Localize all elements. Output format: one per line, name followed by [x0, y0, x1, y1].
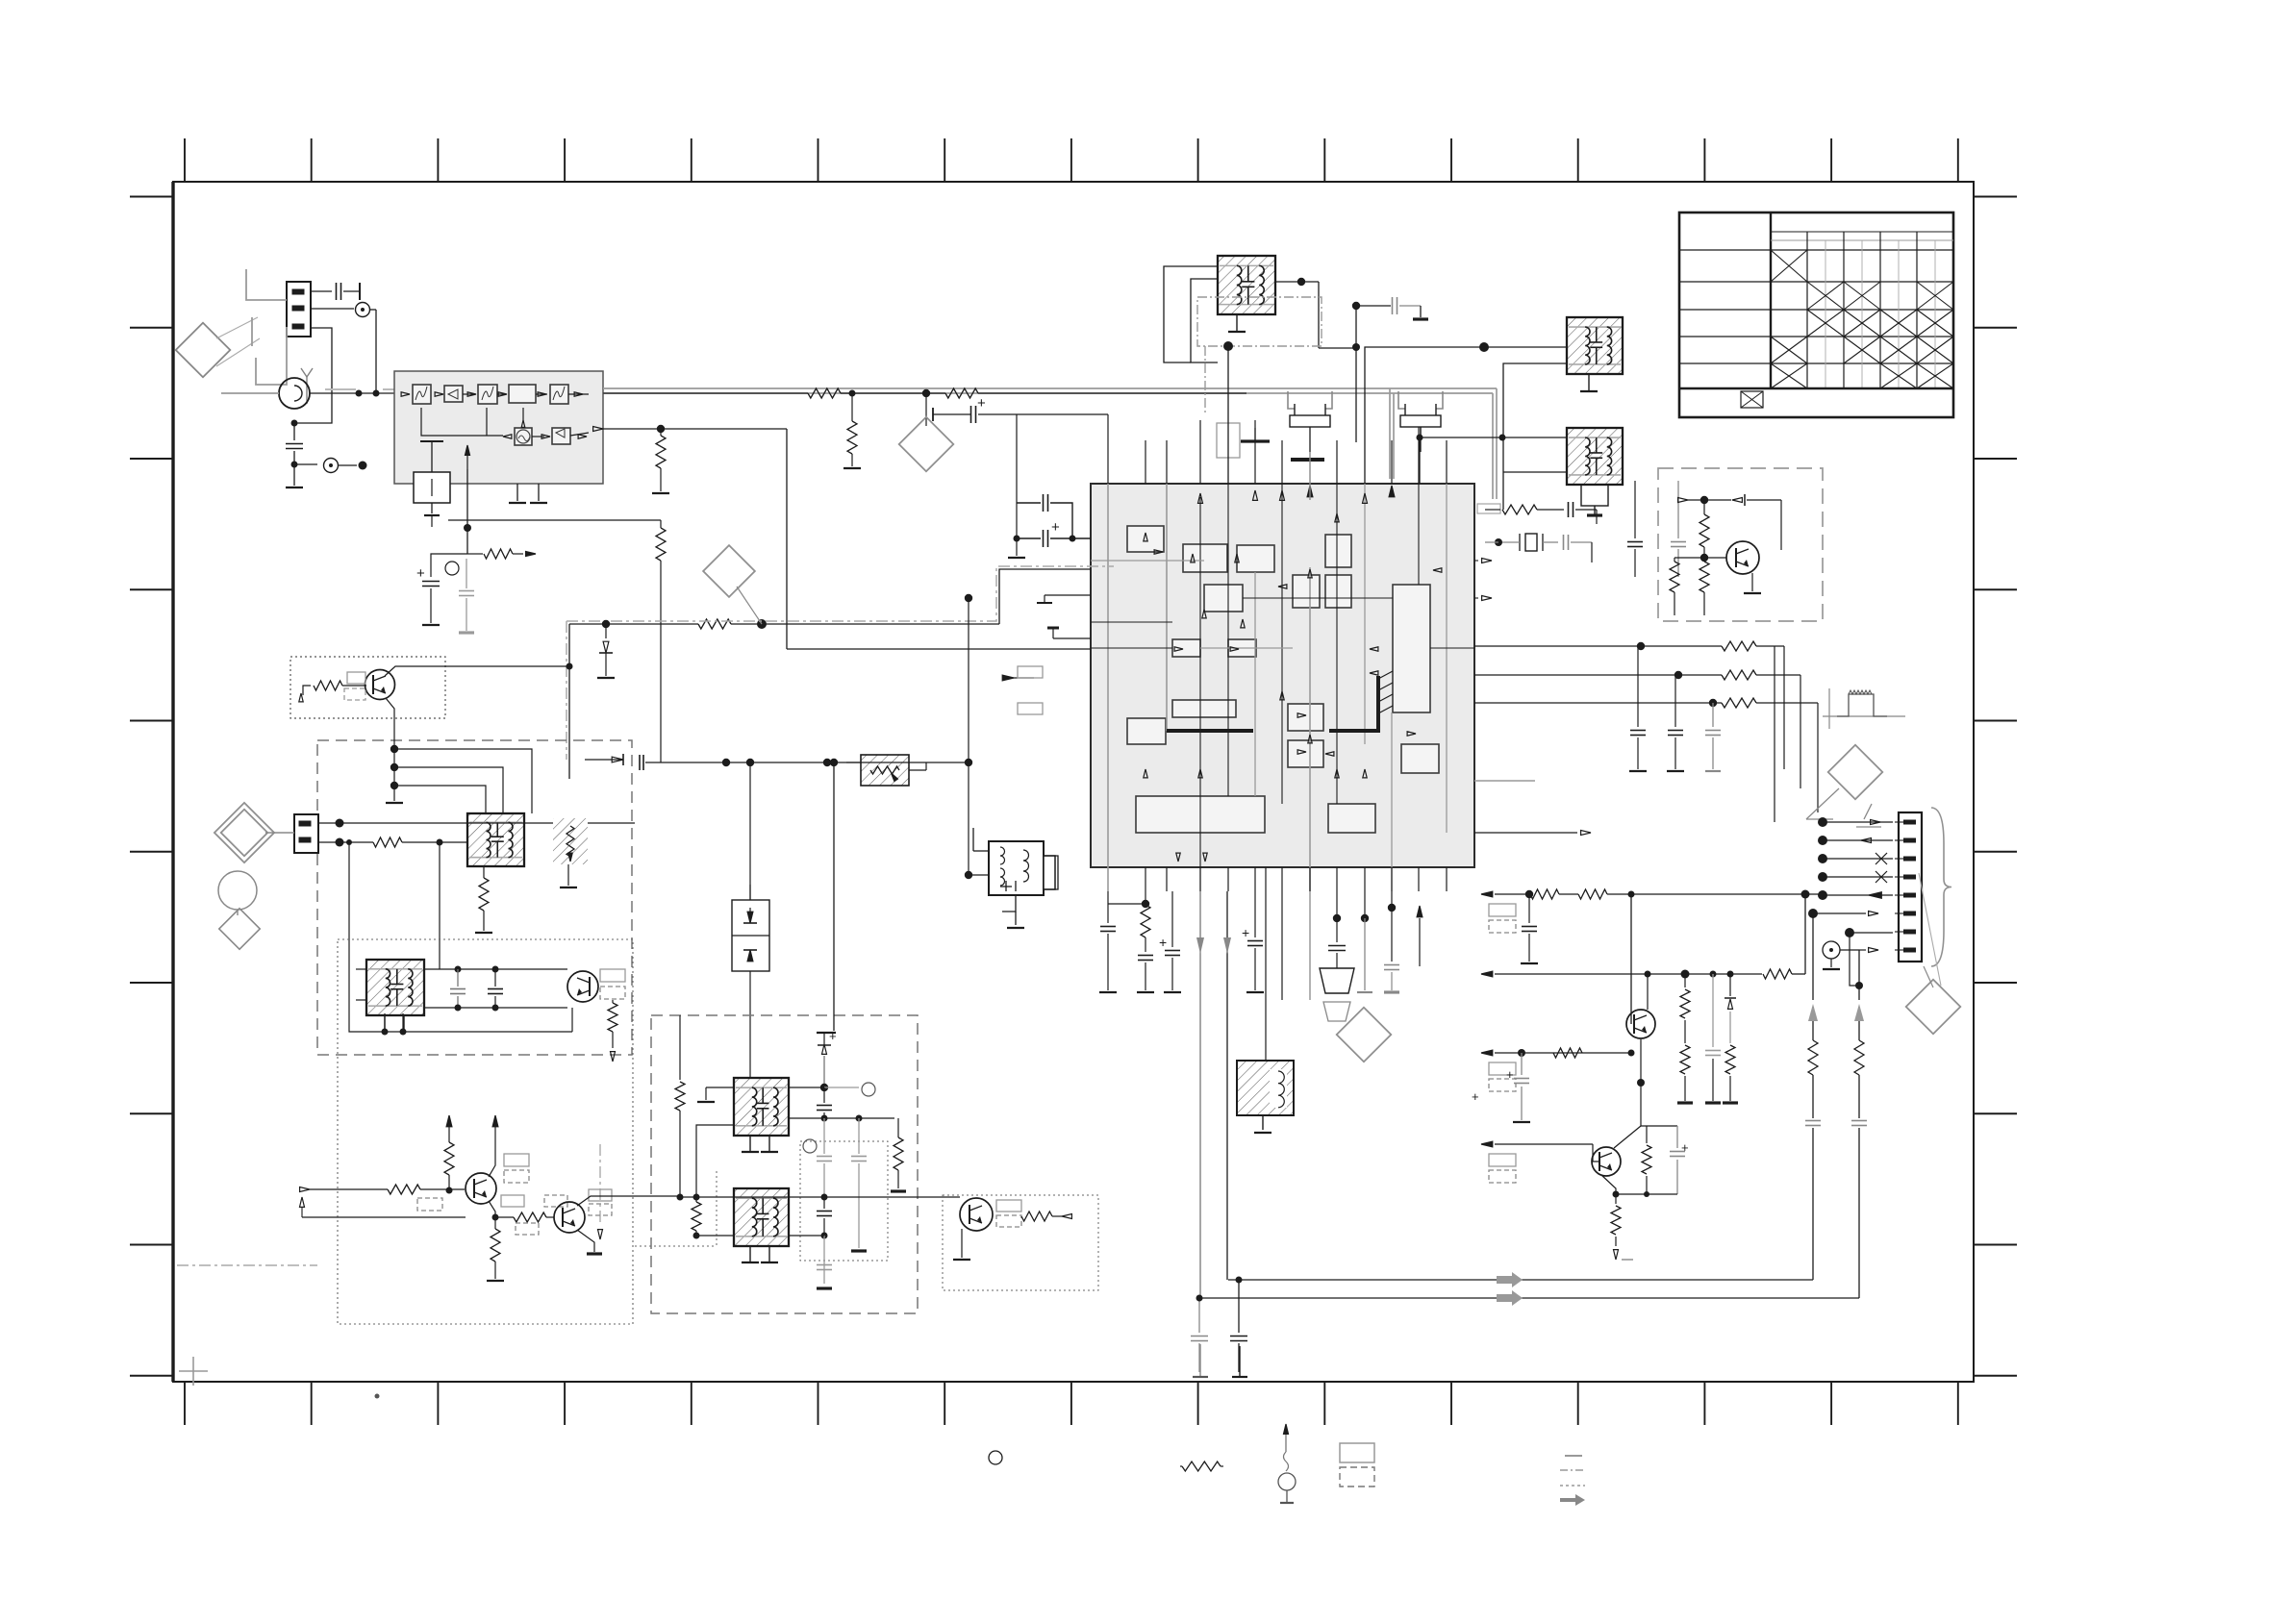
- A1 vcc column: [466, 469, 468, 554]
- T1 junction dot: [1223, 341, 1233, 351]
- transistor Q6: [554, 1202, 585, 1233]
- mid dashdot x624: [599, 1144, 601, 1226]
- Q10 labels: [1489, 1154, 1516, 1166]
- CN3 brace: [1931, 808, 1951, 966]
- svg-text:+: +: [1506, 1067, 1514, 1082]
- CN3 junction dots: [1818, 817, 1827, 827]
- CN3 feeders: [1774, 646, 1775, 822]
- Q10 base row: [1481, 1141, 1493, 1147]
- R10 drop: [439, 842, 441, 969]
- Q5 base row: [300, 1187, 310, 1192]
- svg-text:+: +: [977, 395, 986, 412]
- T7 left: [696, 1235, 734, 1237]
- T7 right row: [789, 1196, 824, 1198]
- AV connector CN2: [294, 814, 318, 853]
- cap C41 loop: [1017, 502, 1041, 504]
- S1 drop: [567, 864, 569, 886]
- legend solid line: [1565, 1455, 1582, 1457]
- A1 interconnects: [463, 393, 475, 395]
- transistor Q8: [960, 1198, 993, 1231]
- col x1219 pcap: [1171, 891, 1173, 947]
- svg-text:+: +: [1242, 925, 1249, 940]
- dotted box B5: [943, 1195, 1098, 1290]
- gray diamond D11: [1906, 980, 1961, 1035]
- B1 column x410: [393, 739, 395, 801]
- B2 caps: [455, 966, 462, 973]
- IC bottom pin stubs: [1145, 867, 1146, 891]
- gnd stub y619: [1045, 594, 1091, 596]
- IC internal horiz wires: [1091, 560, 1204, 562]
- D11 link: [1924, 966, 1933, 987]
- diode D6a: [602, 620, 610, 628]
- D4 link: [265, 832, 294, 834]
- IF bus black overlay: [603, 392, 808, 394]
- row y930 caps: [1528, 894, 1530, 923]
- gray diamond D12: [1337, 1008, 1392, 1062]
- IC edge arrows: [1253, 490, 1258, 500]
- dotted box B3j: [635, 1245, 717, 1247]
- legend resistor: [1182, 1462, 1221, 1471]
- antenna gray wires: [246, 269, 287, 300]
- T6 row2: [789, 1117, 894, 1119]
- resistor R7: [656, 436, 666, 468]
- bias resistor: [467, 553, 483, 555]
- R31 row: [1722, 670, 1756, 680]
- diode block D7: [732, 900, 769, 971]
- row y1245: [680, 1196, 960, 1198]
- tuner input gray feed: [221, 392, 279, 394]
- cap pair right2: [1634, 437, 1636, 481]
- Q9 base column: [1630, 894, 1632, 1024]
- T3 feed2: [1503, 471, 1566, 473]
- transformer T2: [1567, 317, 1623, 374]
- svg-text:+: +: [1472, 1089, 1479, 1104]
- resistor R8: [849, 390, 856, 397]
- row y930: [1481, 891, 1493, 897]
- vert x592: [568, 624, 570, 779]
- tuner cap to gnd: [293, 423, 295, 440]
- resistor R7b: [656, 528, 666, 561]
- Q8 resistor: [1021, 1212, 1052, 1221]
- circle jack J2: [218, 871, 257, 910]
- D10 stem: [1806, 788, 1839, 819]
- Q10 loop: [1641, 1125, 1677, 1127]
- waveform icon: [1823, 715, 1905, 717]
- vertical x1007: [968, 598, 969, 875]
- frame tick marks: [184, 138, 186, 182]
- register cross: [179, 1370, 208, 1372]
- cap C40: [970, 406, 972, 423]
- col x1419: [1364, 891, 1366, 918]
- gray col x895: [803, 1139, 817, 1153]
- riser x818: [786, 429, 788, 649]
- transistor Q2: [567, 971, 598, 1002]
- Q8 emitter: [961, 1229, 963, 1258]
- dashed box B6: [1658, 468, 1823, 621]
- legend arrow: [1560, 1494, 1585, 1506]
- cap col x1288: [1238, 1280, 1240, 1333]
- legend dashdot line: [1560, 1469, 1585, 1471]
- col x1476 arrow: [1417, 906, 1422, 917]
- transformer T1: [1218, 256, 1275, 314]
- D2 stem: [737, 587, 762, 624]
- IC through wires: [1107, 484, 1109, 891]
- A1 crystal: [414, 472, 450, 503]
- R col x1752: [1684, 974, 1686, 987]
- zener D14: [823, 1033, 825, 1044]
- svg-text:+: +: [1051, 519, 1060, 536]
- B3 vcc entry: [833, 762, 835, 1031]
- SAW filter F1: [1237, 1061, 1294, 1115]
- pcap x1582: [1521, 1053, 1523, 1075]
- gnd stub y647: [1053, 637, 1091, 639]
- tiny mark: [375, 1394, 380, 1399]
- Q6 collector out: [577, 1196, 680, 1206]
- Q2 labels: [600, 969, 625, 982]
- row labels: [501, 1195, 524, 1207]
- Q6 labels: [589, 1189, 612, 1201]
- transistor Q5: [466, 1173, 496, 1204]
- Q8 labels: [996, 1200, 1021, 1212]
- CN3 row7: [1845, 928, 1854, 937]
- small diamond D5: [219, 909, 260, 949]
- frame border: [173, 182, 1974, 1382]
- bias pol cap: [431, 554, 467, 577]
- Q6 emitter gnd: [577, 1230, 594, 1252]
- transformer T5 pins: [424, 968, 567, 970]
- diode D6: [585, 759, 623, 761]
- svg-text:+: +: [829, 1029, 837, 1043]
- svg-text:+: +: [1681, 1140, 1689, 1155]
- legend grounds above frame: [1199, 1344, 1201, 1377]
- arrow row y705: [1002, 675, 1014, 681]
- row y1013: [1481, 971, 1493, 977]
- bottom wire B: [1199, 1297, 1859, 1299]
- R32 row: [1722, 698, 1756, 708]
- T4 top feeds: [524, 822, 635, 824]
- col x1362 gray: [1309, 891, 1311, 1000]
- CN3 row feed wires: [1674, 821, 1893, 823]
- trimmer RV1: [861, 755, 909, 786]
- CN2 wires: [318, 822, 361, 824]
- legend circle: [989, 1451, 1002, 1464]
- B1 wire1: [394, 749, 532, 813]
- caps right of IC: [1634, 481, 1636, 538]
- T2 feed1: [1365, 347, 1566, 484]
- resonator X1: [1288, 391, 1295, 409]
- IC bus hatch marks: [1378, 671, 1393, 679]
- bias test circle: [445, 562, 459, 575]
- T6 left bot: [696, 1125, 734, 1197]
- A1 bottom row y541: [448, 519, 661, 521]
- B1 right wires: [673, 762, 726, 763]
- IC U1 body: [1091, 484, 1474, 867]
- cap col3: [1712, 703, 1714, 727]
- IC U1 internal blocks: [1127, 526, 1164, 552]
- legend source: [1284, 1424, 1289, 1434]
- gray diamond D1: [176, 323, 231, 378]
- col x1390 funnel: [1336, 891, 1338, 918]
- Q11 wiring: [1674, 557, 1726, 559]
- dotted box B3i: [800, 1141, 888, 1261]
- col x1276 long: [1226, 891, 1228, 1280]
- legend solid box: [1340, 1443, 1374, 1462]
- T1 drop to IC: [1227, 346, 1229, 484]
- gray diamond D3: [899, 417, 954, 472]
- transistor Q1: [365, 670, 395, 700]
- col x1248 long: [1199, 891, 1201, 1298]
- x363 long wire: [349, 842, 572, 1032]
- T8 wiring: [1044, 856, 1058, 889]
- discriminator coil T8: [989, 841, 1044, 895]
- D11 gray links: [1919, 873, 1941, 986]
- IC thick bus lines: [1167, 729, 1253, 733]
- Q1 collector wire: [385, 666, 569, 676]
- B1 wire3: [394, 786, 486, 813]
- dashed box B3: [651, 1015, 918, 1313]
- R11 below T4: [483, 866, 485, 878]
- diode col x1799: [1729, 974, 1731, 996]
- test point TP2: [324, 459, 339, 473]
- A1 stage arrows: [401, 392, 410, 396]
- Q2 emitter resistor: [612, 1000, 614, 1003]
- transistor Q11: [1726, 541, 1759, 574]
- bias gray cap: [466, 559, 467, 588]
- AGC row y446: [593, 427, 603, 432]
- tuner out wire: [310, 392, 394, 394]
- dotted box B2: [338, 939, 633, 1324]
- balun cap C1: [311, 290, 332, 292]
- cap col x1781: [1712, 974, 1714, 1047]
- Q1 label boxes: [347, 672, 365, 684]
- transformer T6: [734, 1078, 789, 1136]
- CN3 pins: [1903, 820, 1916, 825]
- wire net right of T1: [1355, 306, 1357, 442]
- Q11 R1: [1699, 514, 1709, 547]
- gray diamond D10: [1828, 745, 1883, 800]
- bottom wire A: [1228, 1279, 1813, 1281]
- riser x1885: [1812, 1128, 1814, 1280]
- antenna Y: [301, 368, 313, 377]
- gray diamond D2: [703, 545, 755, 597]
- R20 crystal net: [1485, 509, 1500, 511]
- tuner input circle: [279, 378, 310, 409]
- CN3 arrows: [1823, 821, 1893, 823]
- T1 dashdot box: [1197, 297, 1322, 346]
- shade patch S1: [553, 818, 588, 864]
- revision table: [1679, 212, 1953, 417]
- T1 right wire: [1274, 281, 1301, 283]
- gray diamond D4: [214, 803, 274, 862]
- D7 wires: [749, 762, 751, 900]
- col x1152: [1107, 891, 1109, 905]
- transistor Q9: [1626, 1010, 1655, 1038]
- Q5 collector wire: [489, 1150, 495, 1177]
- col x1305 pcap: [1254, 891, 1256, 937]
- resonator X2: [1398, 391, 1405, 409]
- crystal Y1: [1525, 534, 1537, 551]
- row y1095: [1481, 1050, 1493, 1056]
- R16 below junction: [491, 1229, 500, 1262]
- riser x1933: [1858, 1128, 1860, 1298]
- Q5 collector labels: [504, 1154, 529, 1166]
- left dashdot stub: [177, 1264, 317, 1266]
- transformer T5: [366, 960, 424, 1015]
- mid line y649: [569, 623, 698, 625]
- misc none: [1889, 812, 1891, 813]
- right edge rows: [1482, 559, 1492, 563]
- B1 wire2: [394, 767, 503, 813]
- Q10 emitter: [1601, 1175, 1616, 1194]
- col x1447 dot: [1388, 904, 1396, 912]
- transistor Q10: [1592, 1147, 1621, 1176]
- svg-text:+: +: [416, 565, 425, 582]
- mid dashdot: [566, 566, 1114, 621]
- A1 bottom pins: [516, 484, 518, 501]
- cap col2: [1674, 675, 1676, 727]
- col x1191 resistor: [1145, 891, 1146, 904]
- phono circle J3: [1823, 941, 1840, 959]
- col x1333: [1281, 891, 1283, 1000]
- T3 feed1: [1420, 437, 1566, 438]
- Q11 diode row: [1678, 498, 1688, 503]
- test point TP1: [311, 308, 354, 310]
- line to 963 drop: [925, 393, 927, 426]
- Q9 emitter: [1640, 1039, 1642, 1083]
- dashed box B1: [317, 740, 632, 1055]
- A1 internal stages: [413, 385, 431, 404]
- IF filter block A1: [394, 371, 603, 484]
- lbox x1271: [1217, 423, 1240, 458]
- IF bus gray: [603, 387, 1497, 389]
- connector CN3: [1899, 812, 1922, 962]
- R15b: [695, 1197, 697, 1202]
- T1 outer loop: [1191, 279, 1218, 362]
- R30 row: [1722, 641, 1756, 651]
- Q5 base label: [417, 1198, 442, 1211]
- long row y1266: [302, 1216, 466, 1218]
- vert x589 dashdot: [566, 621, 567, 760]
- transformer T7: [734, 1188, 789, 1246]
- antenna input connector CN1: [287, 282, 311, 337]
- Q1 emitter wire: [386, 698, 394, 739]
- pin3 loop: [294, 328, 332, 423]
- R10: [373, 837, 402, 847]
- cap col x857: [823, 1087, 825, 1103]
- Vcc arrow Q5: [492, 1115, 498, 1127]
- legend dashed box: [1340, 1467, 1374, 1487]
- T2 feed2: [1503, 363, 1566, 510]
- IC top pin stubs: [1145, 440, 1146, 484]
- cap C30: [1392, 297, 1394, 314]
- dotted box Q1: [290, 657, 445, 718]
- T6 left gnd: [706, 1087, 734, 1088]
- Q5 emitter wire: [489, 1201, 495, 1217]
- right wires to edge: [1783, 646, 1785, 769]
- R17 right: [894, 1137, 903, 1170]
- T6 row1: [789, 1087, 824, 1088]
- Q1 base network: [299, 693, 303, 702]
- Vcc arrow R12: [446, 1115, 452, 1127]
- crystal gnd: [1591, 542, 1593, 562]
- legend dotted line: [1560, 1485, 1585, 1487]
- transformer T3: [1567, 428, 1623, 485]
- Q9 collector: [1647, 974, 1649, 1010]
- cap col1: [1637, 646, 1639, 727]
- F1 feed: [1265, 867, 1267, 1061]
- svg-text:+: +: [1159, 935, 1167, 950]
- transformer T4: [467, 813, 524, 866]
- col x707: [679, 1015, 681, 1080]
